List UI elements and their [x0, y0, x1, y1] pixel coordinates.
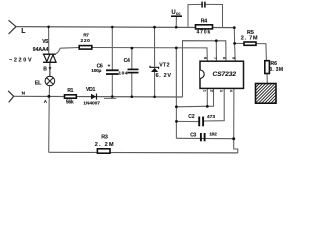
svg-text:R4: R4	[201, 19, 208, 25]
svg-text:R1: R1	[67, 88, 73, 94]
svg-text:cc: cc	[176, 11, 181, 16]
svg-text:470k: 470k	[197, 30, 212, 36]
svg-text:1N4007: 1N4007	[83, 100, 100, 106]
svg-text:100μ: 100μ	[91, 68, 101, 73]
svg-text:CS7232: CS7232	[213, 71, 237, 78]
svg-text:2. 7M: 2. 7M	[241, 36, 258, 42]
svg-text:N: N	[22, 90, 26, 96]
svg-text:6. 2V: 6. 2V	[156, 73, 172, 79]
svg-text:C4: C4	[124, 58, 130, 64]
svg-text:R3: R3	[101, 135, 108, 141]
svg-text:L: L	[21, 28, 26, 35]
svg-text:VT2: VT2	[159, 63, 170, 69]
svg-text:B: B	[43, 66, 47, 72]
svg-text:56k: 56k	[66, 99, 74, 105]
svg-text:7: 7	[213, 57, 217, 59]
svg-text:5: 5	[232, 57, 236, 59]
svg-text:104: 104	[118, 71, 128, 77]
svg-text:C2: C2	[188, 114, 195, 120]
svg-text:~220V: ~220V	[9, 58, 33, 64]
svg-text:3. 3M: 3. 3M	[269, 67, 283, 73]
svg-text:6: 6	[222, 57, 226, 59]
svg-text:R7: R7	[83, 33, 89, 39]
svg-text:VD1: VD1	[86, 87, 96, 93]
svg-text:473: 473	[207, 114, 215, 120]
svg-text:2. 2M: 2. 2M	[95, 142, 115, 148]
svg-text:2: 2	[209, 90, 213, 92]
svg-text:C3: C3	[190, 133, 196, 139]
svg-text:102: 102	[209, 132, 217, 138]
svg-text:220: 220	[81, 38, 91, 44]
svg-text:94AA4: 94AA4	[33, 47, 49, 53]
svg-text:EL: EL	[35, 80, 42, 86]
svg-text:R6: R6	[270, 61, 277, 67]
svg-text:1: 1	[203, 90, 207, 92]
svg-text:3: 3	[219, 90, 223, 92]
svg-text:8: 8	[203, 57, 207, 59]
